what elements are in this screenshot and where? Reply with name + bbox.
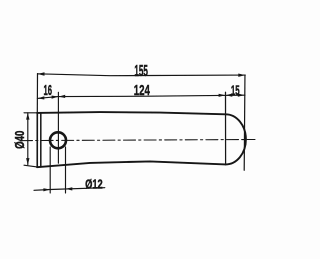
svg-text:155: 155 [134,63,148,80]
svg-text:124: 124 [134,82,151,99]
svg-text:16: 16 [44,82,53,99]
svg-text:15: 15 [231,83,240,98]
svg-text:Ø40: Ø40 [12,131,27,149]
svg-text:Ø12: Ø12 [85,176,103,191]
